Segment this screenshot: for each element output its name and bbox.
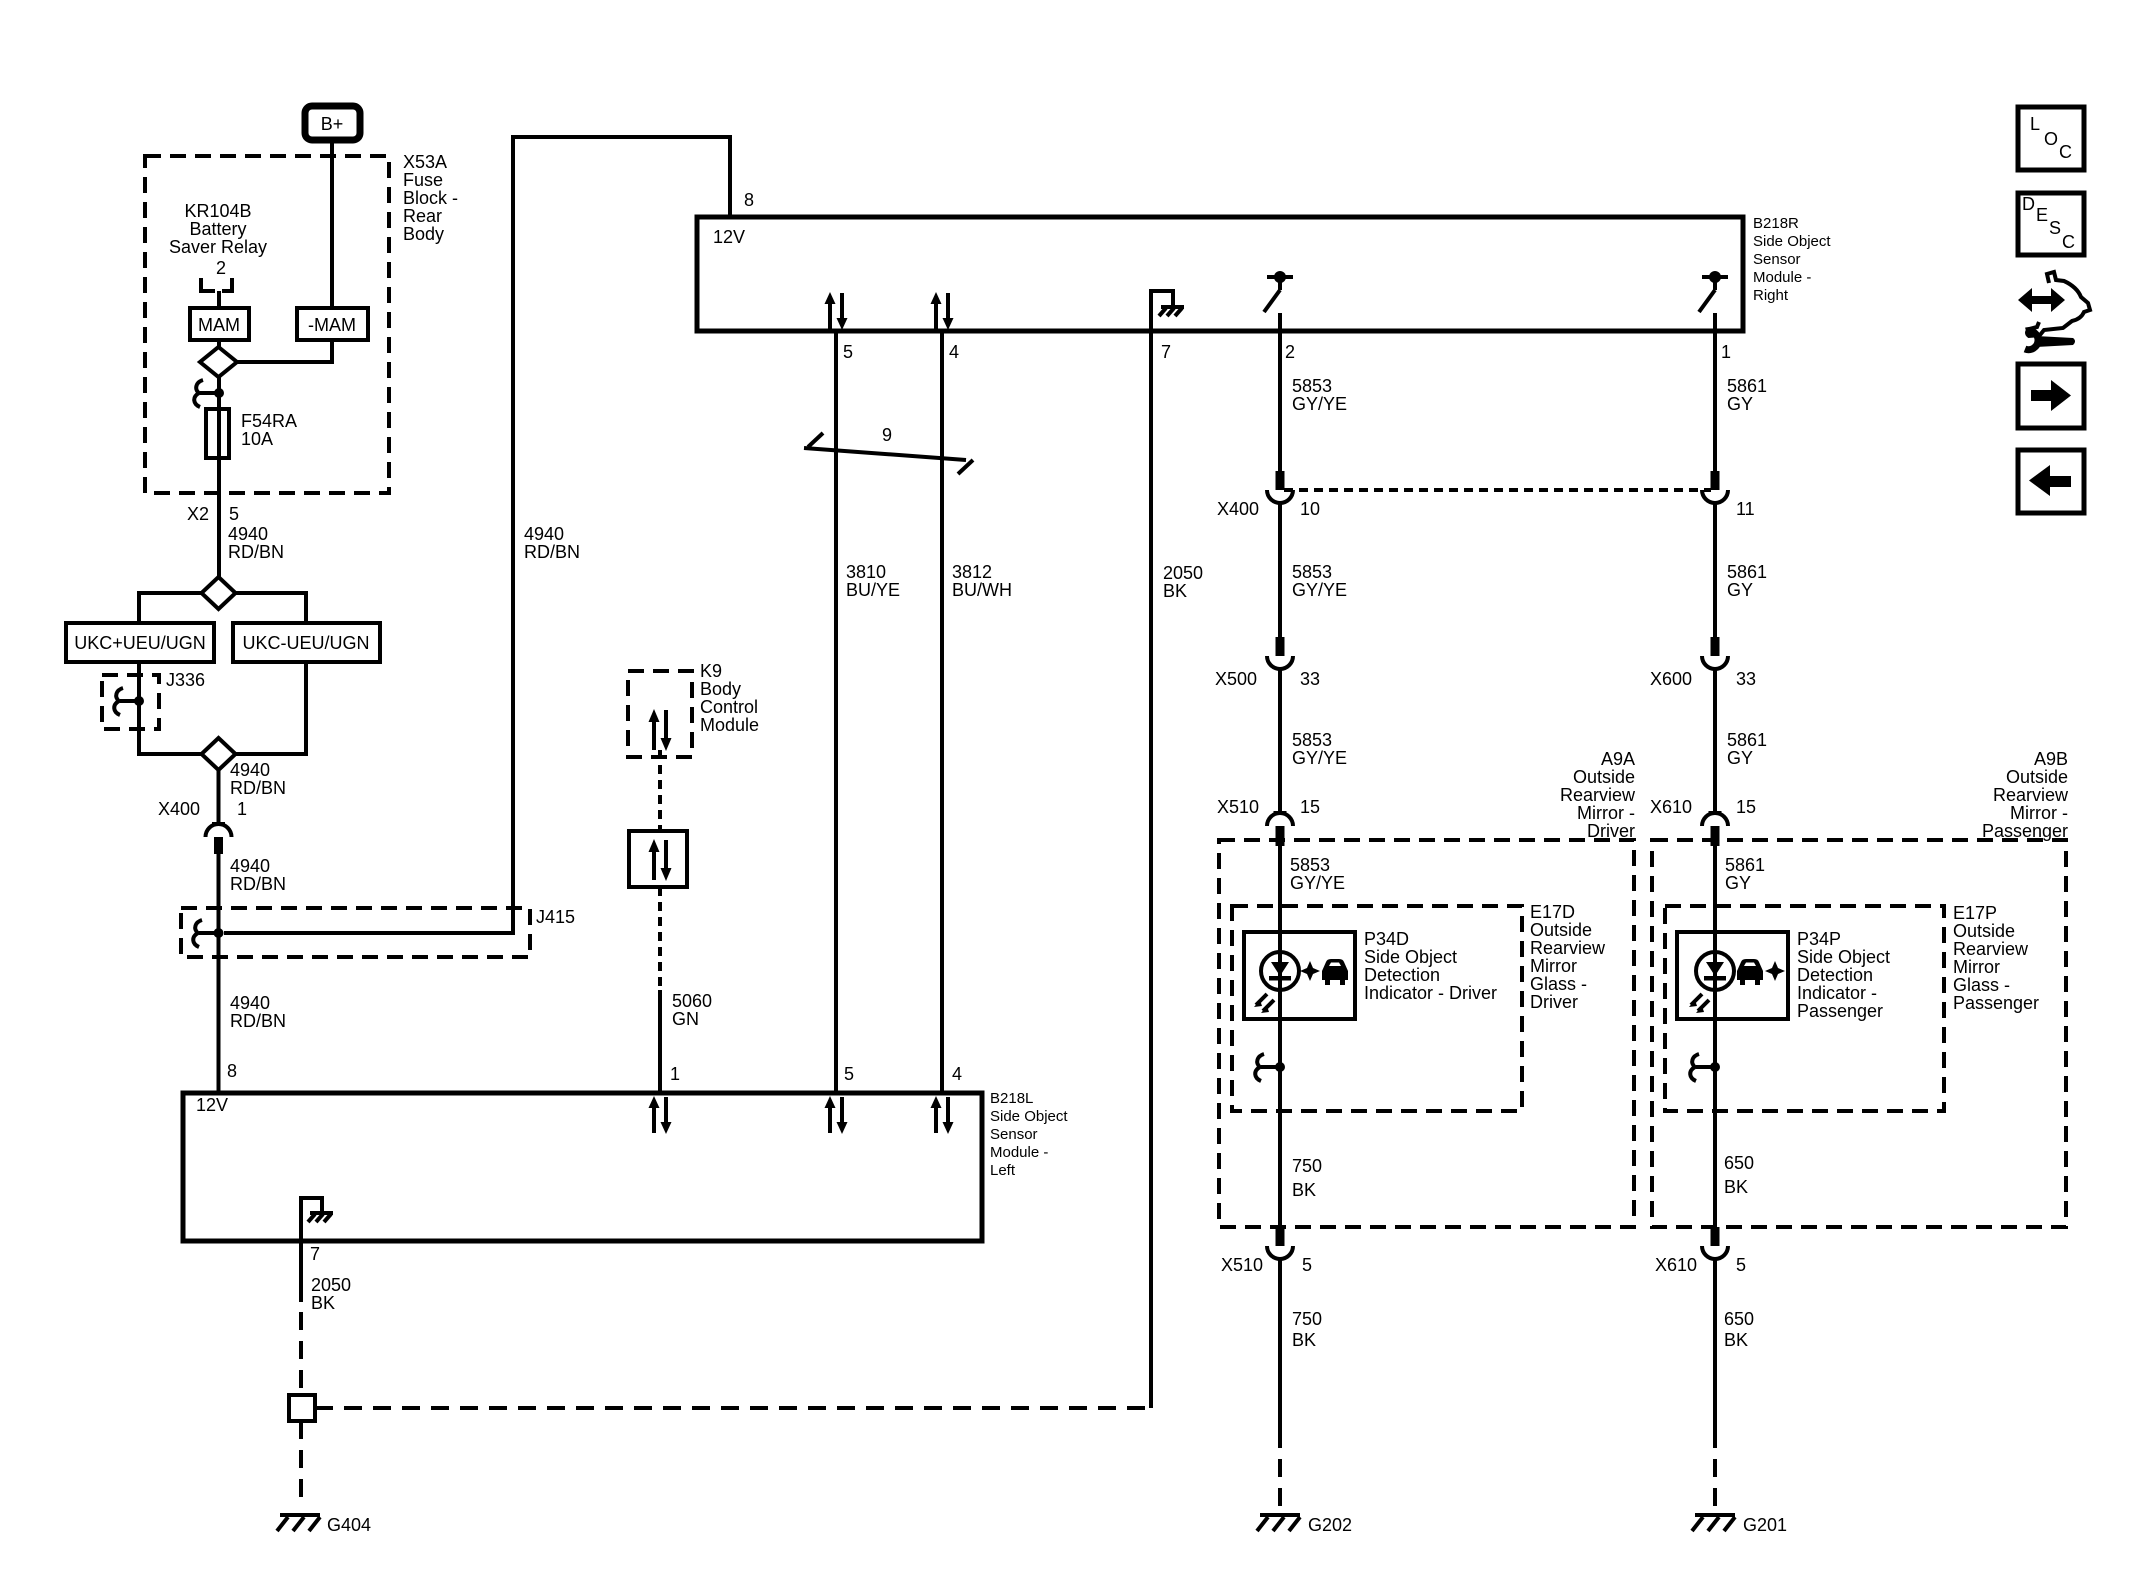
- label block A9B Outside Rearview Mirror - Passenger: [1982, 749, 2069, 841]
- svg-text:Rearview: Rearview: [1560, 785, 1636, 805]
- svg-text:8: 8: [227, 1061, 237, 1081]
- svg-text:Module -: Module -: [990, 1144, 1048, 1161]
- svg-text:5861: 5861: [1727, 730, 1767, 750]
- svg-text:Outside: Outside: [1953, 921, 2015, 941]
- icon arrow left: [2018, 450, 2084, 513]
- wire diamond to fuse: [217, 377, 221, 412]
- svg-text:X610: X610: [1650, 797, 1692, 817]
- svg-text:Mirror -: Mirror -: [1577, 803, 1635, 823]
- svg-text:Body: Body: [403, 224, 444, 244]
- svg-text:Saver Relay: Saver Relay: [169, 237, 267, 257]
- svg-text:B+: B+: [321, 114, 344, 134]
- svg-text:33: 33: [1300, 669, 1320, 689]
- svg-text:X510: X510: [1217, 797, 1259, 817]
- svg-text:750: 750: [1292, 1156, 1322, 1176]
- dashed wire down to splice square: [299, 1312, 303, 1395]
- svg-text:Glass -: Glass -: [1530, 974, 1587, 994]
- indicator P34P box: [1677, 932, 1788, 1019]
- labels X610 5: [1655, 1255, 1746, 1275]
- svg-text:C: C: [2062, 232, 2075, 252]
- svg-text:Outside: Outside: [2006, 767, 2068, 787]
- connector X600 pin 33 symbol: [1702, 637, 1728, 669]
- mirror glass E17D dashed box: [1232, 906, 1522, 1111]
- module K9 dashed box: [628, 671, 692, 757]
- wire splice to UKC+ block: [139, 593, 202, 625]
- svg-text:Right: Right: [1753, 287, 1789, 304]
- svg-text:10: 10: [1300, 499, 1320, 519]
- ground G201: [1692, 1515, 1735, 1531]
- svg-text:Detection: Detection: [1797, 965, 1873, 985]
- svg-text:X2: X2: [187, 504, 209, 524]
- svg-text:-MAM: -MAM: [308, 315, 356, 335]
- svg-text:D: D: [2022, 194, 2035, 214]
- labels X510 15: [1217, 797, 1320, 817]
- svg-text:X500: X500: [1215, 669, 1257, 689]
- sensor symbol at B218R pin 1: [1699, 271, 1728, 331]
- svg-text:Passenger: Passenger: [1797, 1001, 1883, 1021]
- svg-text:Rearview: Rearview: [1953, 939, 2029, 959]
- svg-text:3810: 3810: [846, 562, 886, 582]
- relay coil MAM: [190, 308, 249, 340]
- svg-text:7: 7: [1161, 342, 1171, 362]
- fuse F54RA: [206, 409, 229, 458]
- wire 5861 GY between X600 and X610: [1713, 669, 1717, 813]
- wire label 5861 GY (top): [1727, 376, 1767, 414]
- connector X610 pin 5 symbol: [1702, 1227, 1728, 1259]
- splice diamond below MAM: [200, 347, 237, 377]
- svg-text:4940: 4940: [230, 760, 270, 780]
- svg-text:X600: X600: [1650, 669, 1692, 689]
- svg-text:UKC+UEU/UGN: UKC+UEU/UGN: [74, 633, 206, 653]
- label block E17D Outside Rearview Mirror Glass - Driver: [1530, 902, 1606, 1012]
- svg-text:Control: Control: [700, 697, 758, 717]
- svg-text:Module -: Module -: [1753, 269, 1811, 286]
- svg-text:Mirror: Mirror: [1530, 956, 1577, 976]
- wire label 5853 GY/YE (inside E17D): [1290, 855, 1345, 893]
- svg-text:C: C: [2059, 142, 2072, 162]
- dashed wire from splice square down to G404: [299, 1421, 303, 1507]
- svg-text:15: 15: [1300, 797, 1320, 817]
- svg-text:Battery: Battery: [189, 219, 246, 239]
- wire label 650 BK (inside A9B): [1724, 1153, 1754, 1197]
- svg-text:Outside: Outside: [1530, 920, 1592, 940]
- connector X400 pin 1 symbol: [206, 824, 232, 854]
- svg-text:GY: GY: [1727, 580, 1753, 600]
- svg-text:4: 4: [949, 342, 959, 362]
- svg-text:12V: 12V: [713, 227, 745, 247]
- svg-text:GY/YE: GY/YE: [1292, 748, 1347, 768]
- icon arrow right: [2018, 364, 2084, 428]
- svg-text:5853: 5853: [1292, 562, 1332, 582]
- wire label 5060 GN: [672, 991, 712, 1029]
- wire label 750 BK (inside A9A): [1292, 1156, 1322, 1200]
- labels X600 33: [1650, 669, 1756, 689]
- svg-text:4940: 4940: [230, 856, 270, 876]
- svg-text:RD/BN: RD/BN: [230, 778, 286, 798]
- svg-text:5861: 5861: [1727, 562, 1767, 582]
- wire X400 pin1 down to B218L pin 8: [217, 854, 221, 1091]
- svg-text:G202: G202: [1308, 1515, 1352, 1535]
- splice diamond upper: [202, 577, 236, 609]
- wire B+ down to -MAM: [330, 142, 334, 308]
- car symbol inside P34D: [1322, 959, 1348, 985]
- svg-text:X400: X400: [1217, 499, 1259, 519]
- label block B218L Side Object Sensor Module - Left: [990, 1090, 1068, 1179]
- svg-text:Sensor: Sensor: [990, 1126, 1038, 1143]
- labels X500 33: [1215, 669, 1320, 689]
- svg-text:Side Object: Side Object: [1753, 233, 1831, 250]
- svg-text:BK: BK: [311, 1293, 335, 1313]
- star symbol inside P34P: [1765, 961, 1785, 981]
- svg-text:Side Object: Side Object: [990, 1108, 1068, 1125]
- svg-text:G201: G201: [1743, 1515, 1787, 1535]
- pin 2 bracket terminals of relay KR104B: [201, 278, 232, 308]
- bidirectional arrow symbol at B218R pin 4: [931, 292, 954, 330]
- svg-text:Left: Left: [990, 1162, 1016, 1179]
- wire through P34P: [1713, 932, 1717, 1019]
- module B218R box: [697, 217, 1743, 331]
- svg-text:1: 1: [1721, 342, 1731, 362]
- svg-text:Indicator -: Indicator -: [1797, 983, 1877, 1003]
- wire 2050 BK from B218L pin 7: [299, 1239, 303, 1302]
- label F54RA 10A: [241, 411, 297, 449]
- svg-text:X510: X510: [1221, 1255, 1263, 1275]
- svg-text:5861: 5861: [1727, 376, 1767, 396]
- label block A9A Outside Rearview Mirror - Driver: [1560, 749, 1636, 841]
- wire 5861 GY into P34P: [1713, 846, 1717, 932]
- clip and junction dot inside E17D: [1255, 1054, 1285, 1081]
- svg-text:Detection: Detection: [1364, 965, 1440, 985]
- dashed wire 750 BK to G202: [1278, 1430, 1282, 1512]
- wire from B218R pin 8 over to J415 (4940 RD/BN): [224, 137, 730, 933]
- svg-text:Driver: Driver: [1587, 821, 1635, 841]
- svg-text:L: L: [2030, 114, 2040, 134]
- svg-text:GY/YE: GY/YE: [1292, 394, 1347, 414]
- connector X400 pin 10 symbol: [1267, 471, 1293, 503]
- svg-text:J415: J415: [536, 907, 575, 927]
- wire 5853 GY/YE from B218R pin 2: [1278, 331, 1282, 472]
- svg-text:7: 7: [310, 1244, 320, 1264]
- svg-text:BU/YE: BU/YE: [846, 580, 900, 600]
- label block K9 Body Control Module: [700, 661, 759, 735]
- svg-text:9: 9: [882, 425, 892, 445]
- svg-text:GY/YE: GY/YE: [1290, 873, 1345, 893]
- svg-text:B218R: B218R: [1753, 215, 1799, 232]
- connector X400 pin 11 symbol: [1702, 471, 1728, 503]
- bidirectional arrow symbol at B218L pin 5: [825, 1096, 848, 1134]
- wire P34P to X610 pin 5: [1713, 1019, 1717, 1227]
- wire 3810 BU/YE from B218R pin 5 to B218L pin 5: [834, 331, 838, 1091]
- svg-text:GY: GY: [1727, 394, 1753, 414]
- svg-text:Rearview: Rearview: [1530, 938, 1606, 958]
- svg-text:2050: 2050: [1163, 563, 1203, 583]
- svg-text:3812: 3812: [952, 562, 992, 582]
- svg-text:5: 5: [1736, 1255, 1746, 1275]
- module B218L box: [183, 1093, 982, 1241]
- LED symbol of P34D: [1254, 952, 1299, 1013]
- wire 2050 BK from B218R pin 7: [1149, 331, 1153, 1408]
- wire label 4940 RD/BN (below X400): [230, 856, 286, 894]
- svg-text:33: 33: [1736, 669, 1756, 689]
- dashed wire 650 BK to G201: [1713, 1430, 1717, 1512]
- connector X510 pin 5 symbol: [1267, 1227, 1293, 1259]
- svg-text:BK: BK: [1163, 581, 1187, 601]
- svg-text:BU/WH: BU/WH: [952, 580, 1012, 600]
- svg-text:5853: 5853: [1292, 376, 1332, 396]
- car symbol inside P34P: [1737, 959, 1763, 985]
- clip and junction dot inside E17P: [1690, 1054, 1720, 1081]
- connector label X2 pin 5: [187, 504, 239, 524]
- junction block UKC+UEU/UGN: [66, 623, 214, 662]
- label block B218R Side Object Sensor Module - Right: [1753, 215, 1831, 304]
- relay terminal -MAM: [297, 308, 368, 340]
- svg-text:5853: 5853: [1290, 855, 1330, 875]
- svg-text:5: 5: [843, 342, 853, 362]
- wire label 3810 BU/YE: [846, 562, 900, 600]
- svg-text:X53A: X53A: [403, 152, 447, 172]
- svg-text:F54RA: F54RA: [241, 411, 297, 431]
- svg-text:15: 15: [1736, 797, 1756, 817]
- clip and junction dot inside J336: [114, 688, 144, 715]
- bidirectional arrow symbol at B218L pin 4: [931, 1096, 954, 1134]
- wire splice to UKC- block: [236, 593, 307, 625]
- wire UKC- down to lower splice: [236, 662, 307, 754]
- label block P34P Side Object Detection Indicator - Passenger: [1797, 929, 1890, 1021]
- bidirectional arrow symbol at B218R pin 5: [825, 292, 848, 330]
- wire 5853 GY/YE into P34D: [1278, 846, 1282, 932]
- svg-text:P34P: P34P: [1797, 929, 1841, 949]
- ground G202: [1257, 1515, 1300, 1531]
- label X53A Fuse Block - Rear Body: [403, 152, 458, 244]
- bidirectional arrow symbol inside K9: [649, 709, 672, 751]
- wire label 5861 GY (third): [1727, 730, 1767, 768]
- crossing symbol 9 over wires 3810 and 3812: [804, 425, 973, 474]
- labels X400 10: [1217, 499, 1320, 519]
- wire 5861 GY between X400 and X600: [1713, 503, 1717, 638]
- bidirectional arrow symbol at B218L pin 1: [649, 1096, 672, 1134]
- bidirectional arrow symbol inside serial data box: [649, 839, 672, 881]
- splice square S404: [289, 1395, 315, 1421]
- svg-text:B218L: B218L: [990, 1090, 1033, 1107]
- svg-text:Driver: Driver: [1530, 992, 1578, 1012]
- wire label 5861 GY (inside E17P): [1725, 855, 1765, 893]
- label block P34D Side Object Detection Indicator - Driver: [1364, 929, 1497, 1003]
- clip and junction dot inside J415: [193, 920, 223, 947]
- connector X510 pin 15 symbol: [1267, 813, 1293, 846]
- mirror glass E17P dashed box: [1665, 906, 1944, 1111]
- svg-text:J336: J336: [166, 670, 205, 690]
- svg-text:8: 8: [744, 190, 754, 210]
- svg-text:10A: 10A: [241, 429, 273, 449]
- internal ground symbol at B218L pin 7: [301, 1198, 333, 1239]
- wire label 5853 GY/YE (top): [1292, 376, 1347, 414]
- svg-text:Rearview: Rearview: [1993, 785, 2069, 805]
- svg-text:Passenger: Passenger: [1982, 821, 2068, 841]
- serial data symbol box: [629, 831, 687, 887]
- wire 650 BK down: [1713, 1259, 1717, 1430]
- wire label 2050 BK: [1163, 563, 1203, 601]
- svg-text:4940: 4940: [228, 524, 268, 544]
- dashed wire from splice square to 2050 BK riser: [315, 1406, 1151, 1410]
- wire 5861 GY from B218R pin 1: [1713, 331, 1717, 472]
- wire label 650 BK (below X610): [1724, 1309, 1754, 1350]
- svg-text:GY: GY: [1727, 748, 1753, 768]
- battery feed symbol B+: [305, 106, 360, 140]
- mirror A9B dashed box: [1652, 840, 2066, 1227]
- svg-text:GN: GN: [672, 1009, 699, 1029]
- splice diamond lower: [202, 738, 236, 770]
- svg-text:750: 750: [1292, 1309, 1322, 1329]
- icon LOC: [2018, 107, 2084, 170]
- svg-text:E17D: E17D: [1530, 902, 1575, 922]
- svg-text:RD/BN: RD/BN: [230, 1011, 286, 1031]
- svg-text:2: 2: [1285, 342, 1295, 362]
- svg-text:Side Object: Side Object: [1797, 947, 1890, 967]
- svg-text:Outside: Outside: [1573, 767, 1635, 787]
- svg-text:5: 5: [1302, 1255, 1312, 1275]
- svg-text:5: 5: [229, 504, 239, 524]
- wire P34D to clip: [1278, 1019, 1282, 1227]
- svg-text:X610: X610: [1655, 1255, 1697, 1275]
- wire label 2050 BK (left): [311, 1275, 351, 1313]
- LED symbol of P34P: [1689, 952, 1734, 1013]
- svg-text:P34D: P34D: [1364, 929, 1409, 949]
- svg-text:5861: 5861: [1725, 855, 1765, 875]
- svg-text:RD/BN: RD/BN: [228, 542, 284, 562]
- junction block UKC-UEU/UGN: [233, 623, 380, 662]
- svg-text:Block -: Block -: [403, 188, 458, 208]
- wire label 4940 RD/BN (below lower splice): [230, 760, 286, 798]
- wire MAM to splice diamond: [217, 340, 221, 349]
- svg-text:Side Object: Side Object: [1364, 947, 1457, 967]
- dashed wire serial data symbol down: [658, 887, 662, 990]
- svg-text:Glass -: Glass -: [1953, 975, 2010, 995]
- svg-text:4940: 4940: [230, 993, 270, 1013]
- icon connector locator with arrow and wrench: [2018, 272, 2090, 350]
- svg-text:X400: X400: [158, 799, 200, 819]
- svg-text:A9B: A9B: [2034, 749, 2068, 769]
- wire label 5853 GY/YE (second): [1292, 562, 1347, 600]
- sensor symbol at B218R pin 2: [1264, 271, 1293, 331]
- svg-text:G404: G404: [327, 1515, 371, 1535]
- icon DESC: [2018, 193, 2084, 255]
- wire 3812 BU/WH from B218R pin 4 to B218L pin 4: [940, 331, 944, 1091]
- svg-text:Mirror -: Mirror -: [2010, 803, 2068, 823]
- svg-text:UKC-UEU/UGN: UKC-UEU/UGN: [242, 633, 369, 653]
- svg-text:1: 1: [670, 1064, 680, 1084]
- svg-text:Fuse: Fuse: [403, 170, 443, 190]
- connector X610 pin 15 symbol: [1702, 813, 1728, 846]
- wire label 5853 GY/YE (third): [1292, 730, 1347, 768]
- star symbol inside P34D: [1300, 961, 1320, 981]
- wire label 3812 BU/WH: [952, 562, 1012, 600]
- wire label 4940 RD/BN (below J415): [230, 993, 286, 1031]
- wire label 5861 GY (second): [1727, 562, 1767, 600]
- svg-text:E17P: E17P: [1953, 903, 1997, 923]
- svg-text:O: O: [2044, 129, 2058, 149]
- svg-text:2050: 2050: [311, 1275, 351, 1295]
- svg-text:2: 2: [216, 258, 226, 278]
- svg-text:RD/BN: RD/BN: [230, 874, 286, 894]
- svg-text:K9: K9: [700, 661, 722, 681]
- svg-text:GY: GY: [1725, 873, 1751, 893]
- svg-text:650: 650: [1724, 1309, 1754, 1329]
- labels X510 5: [1221, 1255, 1312, 1275]
- wire through P34D: [1278, 932, 1282, 1019]
- svg-text:BK: BK: [1724, 1177, 1748, 1197]
- wire -MAM down to splice diamond: [236, 340, 332, 362]
- wire 5853 GY/YE between X400 and X500: [1278, 503, 1282, 638]
- svg-text:5060: 5060: [672, 991, 712, 1011]
- wire UKC+ down to lower splice: [139, 662, 202, 754]
- svg-text:Body: Body: [700, 679, 741, 699]
- svg-text:Module: Module: [700, 715, 759, 735]
- wire label 4940 RD/BN (long riser): [524, 524, 580, 562]
- svg-text:Rear: Rear: [403, 206, 442, 226]
- svg-text:GY/YE: GY/YE: [1292, 580, 1347, 600]
- wire 5853 GY/YE between X500 and X510: [1278, 669, 1282, 813]
- svg-text:A9A: A9A: [1601, 749, 1635, 769]
- svg-text:Sensor: Sensor: [1753, 251, 1801, 268]
- junction J336 dashed box: [102, 675, 159, 729]
- svg-text:Passenger: Passenger: [1953, 993, 2039, 1013]
- label block E17P Outside Rearview Mirror Glass - Passenger: [1953, 903, 2039, 1013]
- svg-text:E: E: [2036, 205, 2048, 225]
- wire label 4940 RD/BN (below X2): [228, 524, 284, 562]
- labels X400 1: [158, 799, 247, 819]
- svg-text:11: 11: [1736, 499, 1755, 519]
- svg-text:Indicator - Driver: Indicator - Driver: [1364, 983, 1497, 1003]
- fuse block X53A dashed outline: [145, 156, 389, 493]
- wire 750 BK down: [1278, 1259, 1282, 1430]
- svg-text:4: 4: [952, 1064, 962, 1084]
- svg-text:1: 1: [237, 799, 247, 819]
- wire lower splice to connector X400 pin 1: [217, 770, 221, 824]
- clip symbol on wire below diamond: [194, 380, 224, 407]
- labels X610 15: [1650, 797, 1756, 817]
- svg-text:RD/BN: RD/BN: [524, 542, 580, 562]
- dashed jumper between X400 pin 10 and pin 11: [1284, 488, 1711, 492]
- svg-text:650: 650: [1724, 1153, 1754, 1173]
- dashed wire K9 to serial data symbol: [658, 750, 662, 831]
- wire fuse down through X2 pin 5 to splice: [217, 455, 221, 578]
- svg-text:Mirror: Mirror: [1953, 957, 2000, 977]
- svg-text:5853: 5853: [1292, 730, 1332, 750]
- wire 5060 GN to B218L pin 1: [658, 990, 662, 1091]
- svg-text:BK: BK: [1292, 1180, 1316, 1200]
- ground G404: [277, 1515, 320, 1531]
- relay KR104B label: [169, 201, 267, 257]
- svg-text:4940: 4940: [524, 524, 564, 544]
- connector X500 pin 33 symbol: [1267, 637, 1293, 669]
- svg-text:S: S: [2049, 218, 2061, 238]
- svg-text:5: 5: [844, 1064, 854, 1084]
- svg-text:12V: 12V: [196, 1095, 228, 1115]
- svg-text:MAM: MAM: [198, 315, 240, 335]
- mirror A9A dashed box: [1219, 840, 1634, 1227]
- internal ground symbol at B218R pin 7: [1151, 291, 1184, 331]
- junction J415 dashed box: [181, 908, 530, 957]
- svg-text:BK: BK: [1724, 1330, 1748, 1350]
- indicator P34D box: [1244, 932, 1355, 1019]
- svg-text:KR104B: KR104B: [184, 201, 251, 221]
- wire label 750 BK (below X510): [1292, 1309, 1322, 1350]
- svg-text:BK: BK: [1292, 1330, 1316, 1350]
